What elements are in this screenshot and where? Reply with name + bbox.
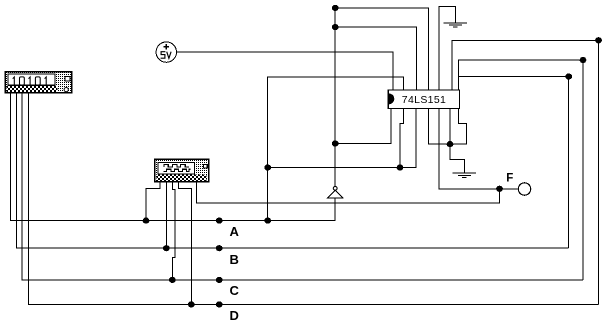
wire sequence generator pin P5 to node F xyxy=(196,182,499,203)
svg-text:D: D xyxy=(230,308,239,323)
wire 74LS151 pin B5 output to LED F xyxy=(439,108,518,189)
wire bus B from binary display pin 2 xyxy=(17,93,569,249)
node A junction 1 xyxy=(143,218,150,224)
node corner B xyxy=(565,73,572,79)
node C junction 2 xyxy=(216,277,223,283)
svg-text:C: C xyxy=(230,283,240,298)
wire sequence generator pin P3 to node C xyxy=(172,182,175,280)
wire bus C from binary display pin 3 xyxy=(22,93,583,280)
wire inverter output to 74LS151 pin T3 xyxy=(335,27,417,90)
node D junction 2 xyxy=(216,301,223,307)
wire data net node A to 74LS151 pin B3 xyxy=(268,108,416,167)
sequence generator U4 xyxy=(155,159,209,182)
node B junction 1 xyxy=(163,245,170,251)
node data net right xyxy=(397,164,404,170)
ground GND2 xyxy=(453,173,476,177)
node on inverter riser top xyxy=(332,5,339,11)
node B junction 2 xyxy=(216,245,223,251)
svg-text:F: F xyxy=(506,173,513,185)
wire inverter output to 74LS151 pin T5 xyxy=(335,8,428,90)
wire 74LS151 pin B4 to pin B7 enable net xyxy=(428,108,466,144)
wire 5V supply to 74LS151 pin T1 xyxy=(177,52,394,90)
node corner C xyxy=(580,57,587,63)
wire inverter output to 74LS151 pin B1 xyxy=(335,108,391,143)
wire sequence generator pin P2 to node B xyxy=(165,182,167,248)
node on inverter riser low xyxy=(332,140,339,146)
wire sequence generator pin P1 to node A xyxy=(146,182,160,221)
node C junction 1 xyxy=(169,277,176,283)
power source V1 (+5V) xyxy=(156,42,176,62)
wire 74LS151 pin T6 to ground xyxy=(439,7,455,90)
led F xyxy=(518,183,530,195)
wire node-A riser to 74LS151 pin T2 xyxy=(268,77,404,221)
inverter U2 (NOT gate, output up) xyxy=(328,186,343,197)
node D junction 1 xyxy=(188,301,195,307)
svg-text:74LS151: 74LS151 xyxy=(402,94,447,106)
node F junction xyxy=(496,186,503,192)
ground GND1 xyxy=(444,23,467,27)
binary display U3 (10101) xyxy=(5,72,72,93)
node A junction 2 xyxy=(216,218,223,224)
node on inverter riser mid xyxy=(332,24,339,30)
wire 74LS151 pin B6 to ground xyxy=(450,108,464,173)
wire sequence generator pin P4 to node D xyxy=(179,182,192,305)
svg-text:A: A xyxy=(230,224,240,239)
wire bus D from binary display pin 4 xyxy=(28,93,598,305)
node A junction 3 xyxy=(264,218,271,224)
node corner D xyxy=(595,37,602,43)
wire 74LS151 pin B2 jog to data node xyxy=(400,108,404,167)
wire 74LS151 pin T7 to node D xyxy=(452,40,598,304)
wire 74LS151 pin T8 to node C xyxy=(458,60,583,280)
wire bus A from binary display pin 1 to inverter input xyxy=(10,93,335,221)
wire inverter output riser xyxy=(334,8,336,186)
multiplexer U1 74LS151 xyxy=(388,90,459,109)
node enable net xyxy=(447,141,454,147)
node data net left xyxy=(264,164,271,170)
svg-text:B: B xyxy=(230,252,239,267)
wire 74LS151 pin T8 branch to node B xyxy=(458,77,568,249)
